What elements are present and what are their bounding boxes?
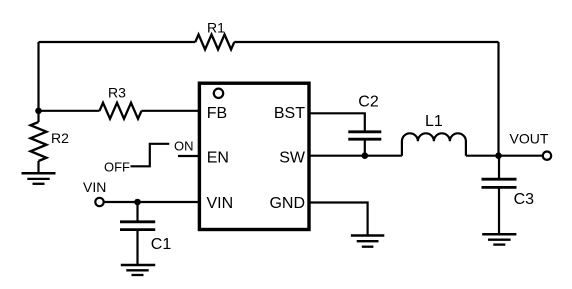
- wire SW pin to L1: [309, 155, 402, 157]
- svg-text:C1: C1: [151, 236, 172, 253]
- wire R2 to ground: [37, 161, 39, 173]
- inductor L1: [402, 133, 466, 155]
- junction dot VIN node: [134, 199, 141, 206]
- capacitor C2: [348, 132, 381, 139]
- svg-text:EN: EN: [207, 149, 229, 166]
- wire top rail right segment: [234, 41, 498, 43]
- node A junction dot: [35, 108, 42, 115]
- VIN terminal circle: [95, 198, 103, 206]
- svg-text:VIN: VIN: [207, 195, 234, 212]
- svg-text:SW: SW: [279, 149, 306, 166]
- svg-text:GND: GND: [269, 195, 305, 212]
- svg-text:BST: BST: [274, 105, 305, 122]
- svg-text:ON: ON: [174, 139, 194, 154]
- wire R3 to FB pin: [142, 110, 200, 112]
- ground below GND pin: [351, 236, 384, 247]
- ground below C1: [121, 265, 155, 275]
- switch OFF/ON lever wires: [131, 144, 170, 167]
- svg-text:FB: FB: [207, 105, 227, 122]
- wire BST pin to C2: [309, 113, 365, 132]
- wire C3 to ground: [498, 187, 500, 234]
- wire C1 to ground: [136, 230, 138, 265]
- svg-text:R2: R2: [51, 130, 69, 146]
- wire VIN terminal to VIN pin: [104, 201, 200, 203]
- pin 1 marker circle: [214, 89, 223, 98]
- op-amp U1 (regulator IC body): [199, 83, 309, 229]
- wire C2 to SW node: [364, 139, 366, 156]
- junction dot VOUT node: [495, 152, 502, 159]
- wire top rail left segment: [39, 41, 196, 43]
- capacitor C1: [120, 222, 155, 230]
- wire GND pin to ground: [309, 203, 368, 236]
- ground below R2: [22, 173, 56, 184]
- svg-text:VOUT: VOUT: [510, 130, 549, 146]
- resistor R2: [31, 122, 47, 161]
- wire left rail: [37, 42, 39, 111]
- svg-text:VIN: VIN: [83, 179, 106, 195]
- svg-text:C2: C2: [358, 93, 379, 110]
- svg-text:OFF: OFF: [104, 159, 130, 174]
- wire node A to R2: [37, 111, 39, 122]
- svg-text:R1: R1: [207, 20, 225, 36]
- wire L1 to VOUT node: [466, 155, 499, 157]
- wire EN stub: [178, 155, 199, 157]
- ground below C3: [482, 234, 516, 244]
- capacitor C3: [482, 179, 517, 187]
- resistor R3: [100, 103, 142, 119]
- svg-text:L1: L1: [425, 113, 443, 130]
- wire VOUT node down to C3: [498, 156, 500, 180]
- VOUT terminal circle: [543, 152, 551, 160]
- wire right rail: [497, 42, 499, 156]
- wire VIN node down to C1: [136, 202, 138, 222]
- wire FB node to R3: [39, 110, 100, 112]
- junction dot SW node: [362, 152, 369, 159]
- resistor R1: [195, 35, 234, 50]
- svg-text:C3: C3: [514, 191, 535, 208]
- svg-text:R3: R3: [108, 85, 126, 101]
- wire VOUT node to terminal: [499, 155, 543, 157]
